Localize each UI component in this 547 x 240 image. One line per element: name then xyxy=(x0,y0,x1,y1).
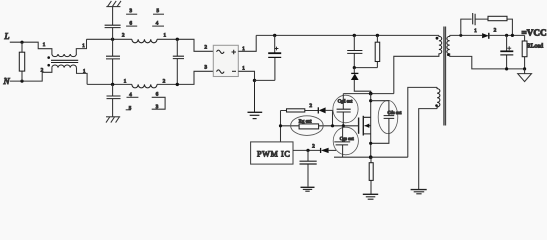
node junction Cgd gate xyxy=(342,124,345,127)
earth ground pwm cap xyxy=(301,187,315,191)
svg-text:6: 6 xyxy=(130,20,133,26)
bulk cap plus sign xyxy=(275,47,279,51)
node N label xyxy=(3,76,11,86)
capacitor C output electrolytic xyxy=(500,35,513,69)
bridge rectifier BR1 box xyxy=(213,45,238,76)
wire source to aux winding xyxy=(408,87,437,157)
bridge plus sign xyxy=(232,50,237,54)
transformer T1 aux phase dot xyxy=(435,104,438,107)
common-mode choke L1 core xyxy=(51,60,78,62)
node junction gate mid xyxy=(279,124,282,127)
svg-text:RLoad: RLoad xyxy=(527,43,543,50)
svg-text:L: L xyxy=(4,31,10,41)
node junction Cds top xyxy=(369,99,372,102)
wire source rail xyxy=(334,156,408,158)
wire top rail left xyxy=(87,38,132,40)
svg-text:Rg ext: Rg ext xyxy=(299,119,312,125)
wire PWM right output xyxy=(293,149,321,151)
wire secondary return rail xyxy=(450,54,525,69)
wire drain vertical xyxy=(370,94,372,158)
node junction out cap bottom xyxy=(505,67,508,70)
bridge ac symbol top xyxy=(217,50,225,53)
transformer T1 secondary winding xyxy=(447,35,450,54)
pin label 5 stub xyxy=(153,8,164,14)
node junction source xyxy=(369,155,373,159)
pin 2 output diode label xyxy=(494,27,497,33)
resistor RLoad xyxy=(522,35,527,69)
svg-text:2: 2 xyxy=(312,143,315,149)
wire L input xyxy=(10,42,52,54)
wire transformer primary bottom to drain xyxy=(394,54,439,94)
svg-text:2: 2 xyxy=(205,45,208,51)
svg-text:5: 5 xyxy=(157,8,160,14)
node junction VCC out cap xyxy=(505,34,508,37)
bridge minus sign xyxy=(232,70,236,72)
earth ground aux xyxy=(411,190,427,194)
svg-text:2: 2 xyxy=(494,27,497,33)
pin 1 inductor L2 right xyxy=(164,32,167,38)
ground output triangle xyxy=(518,69,532,82)
pin label 4 stub bottom xyxy=(127,92,139,98)
svg-text:1: 1 xyxy=(164,32,167,38)
pin 2 inductor L2 left xyxy=(122,33,125,39)
label Rg ext xyxy=(299,119,312,125)
common-mode choke L1 top winding xyxy=(52,54,76,57)
capacitor Cds ext circled xyxy=(371,100,398,143)
wire gate rail xyxy=(281,125,359,127)
diode D gate top xyxy=(318,107,332,126)
capacitor CX1 xyxy=(106,39,120,84)
node junction primary ground xyxy=(253,79,256,82)
resistor R out snubber xyxy=(475,16,512,35)
pin label 6 stub xyxy=(126,20,137,26)
pin label 3 stub xyxy=(126,8,137,14)
svg-text:1: 1 xyxy=(124,79,127,85)
svg-text:N: N xyxy=(3,76,11,86)
pin 2 choke left bottom xyxy=(41,68,44,74)
wire aux winding to ground xyxy=(419,109,437,190)
pin 2 inductor L3 right xyxy=(163,79,166,85)
PWM IC U1 label xyxy=(257,149,290,158)
common-mode choke L1 bottom winding xyxy=(52,65,76,68)
label RLoad xyxy=(527,43,543,50)
earth ground sense xyxy=(363,194,378,199)
bridge pin 2 label xyxy=(205,45,208,51)
svg-text:Cgs ext: Cgs ext xyxy=(340,136,355,141)
chassis ground top (Y-cap) xyxy=(106,1,121,7)
bridge pin 1 bottom label xyxy=(242,66,245,72)
node junction bottom rail Xcap2 xyxy=(176,83,179,86)
transformer T1 primary phase dot xyxy=(436,37,439,40)
svg-text:4: 4 xyxy=(156,20,159,26)
capacitor CY2 bottom xyxy=(107,84,121,116)
earth ground primary xyxy=(248,80,263,118)
wire bridge minus to ground node xyxy=(238,71,254,80)
wire top rail right to bridge xyxy=(157,39,213,51)
transistor Q1 MOSFET xyxy=(359,116,371,136)
node junction top rail Xcap2 xyxy=(176,38,179,41)
capacitor Cgd ext circled xyxy=(333,94,358,126)
node junction bulk cap xyxy=(273,34,276,37)
chassis ground bottom (Y-cap) xyxy=(106,117,120,123)
node junction top rail Ycap xyxy=(111,38,114,41)
label VCC xyxy=(522,28,547,38)
svg-text:6: 6 xyxy=(156,91,159,97)
svg-text:3: 3 xyxy=(130,8,133,14)
svg-text:Cgd ext: Cgd ext xyxy=(338,99,353,104)
resistor R1 input xyxy=(19,42,24,81)
node junction clamp RCD xyxy=(353,66,356,69)
pin label 4 stub xyxy=(152,20,164,26)
node junction drain xyxy=(369,92,373,96)
capacitor CY1 top xyxy=(105,7,121,40)
pin 1 choke left top xyxy=(43,42,46,48)
svg-text:2: 2 xyxy=(122,33,125,39)
pin 2 label gate diode bottom xyxy=(312,143,315,149)
pin label 6 stub bottom xyxy=(156,91,159,97)
capacitor C clamp xyxy=(347,35,362,67)
pin 1 inductor L3 left xyxy=(124,79,127,85)
transformer T1 secondary phase dot xyxy=(447,54,450,57)
svg-text:2: 2 xyxy=(163,79,166,85)
node junction clamp cap xyxy=(353,34,356,37)
wire N input xyxy=(10,68,52,82)
PWM IC U1 box xyxy=(251,142,293,164)
svg-text:=VCC: =VCC xyxy=(522,28,547,38)
capacitor C pwm xyxy=(300,150,317,186)
wire bottom rail left xyxy=(87,83,132,85)
wire DC bus rail xyxy=(256,34,439,36)
label Cds ext xyxy=(388,110,403,115)
resistor R sense xyxy=(369,157,373,194)
svg-text:Cds ext: Cds ext xyxy=(388,110,403,115)
diode D clamp xyxy=(351,68,371,94)
node junction L-R1 xyxy=(20,41,23,44)
common-mode choke L1 phase dot top xyxy=(47,56,50,59)
node junction VCC snubber xyxy=(511,34,514,37)
diode D gate bottom xyxy=(321,148,336,153)
transformer T1 aux winding xyxy=(437,87,440,108)
resistor R clamp xyxy=(354,35,379,67)
node junction snubber left xyxy=(459,34,462,37)
capacitor CX2 xyxy=(173,39,184,84)
resistor R gate on xyxy=(281,109,319,112)
pin label 3 bracket bottom xyxy=(152,97,165,110)
wire choke top right to rail xyxy=(76,39,86,54)
pin 2 label gate diode top xyxy=(310,103,313,109)
svg-text:1: 1 xyxy=(43,42,46,48)
svg-text:2: 2 xyxy=(310,103,313,109)
pin 1 output diode label xyxy=(474,28,477,34)
svg-text:5: 5 xyxy=(129,106,132,112)
wire secondary top to diode xyxy=(450,34,482,36)
inductor L3 bottom xyxy=(132,84,157,88)
svg-text:1: 1 xyxy=(242,66,245,72)
bridge pin 1 top label xyxy=(242,46,245,52)
pin 1 choke right bottom xyxy=(83,69,86,75)
capacitor C out snubber xyxy=(461,13,475,35)
common-mode choke L1 phase dot bottom xyxy=(47,64,50,67)
node L label xyxy=(4,31,10,41)
label Cgd ext xyxy=(338,99,353,104)
label Cgs ext xyxy=(340,136,355,141)
node junction PWM cap xyxy=(306,149,309,152)
svg-text:3: 3 xyxy=(205,65,208,71)
transformer T1 primary winding xyxy=(439,35,442,54)
svg-text:PWM IC: PWM IC xyxy=(257,149,290,158)
bridge pin 3 label xyxy=(205,65,208,71)
node junction N-R1 xyxy=(20,80,23,83)
pin 1 choke right top xyxy=(82,43,85,49)
diode D output xyxy=(482,33,524,39)
inductor L2 top xyxy=(132,39,157,43)
node junction clamp res xyxy=(376,34,379,37)
capacitor C bulk electrolytic xyxy=(255,35,282,80)
node junction Cds bottom xyxy=(369,142,372,145)
svg-text:1: 1 xyxy=(474,28,477,34)
output cap plus sign xyxy=(507,46,511,50)
bridge ac symbol bottom xyxy=(217,70,225,73)
node junction bottom rail Ycap xyxy=(111,83,114,86)
wire bottom rail right to bridge xyxy=(157,71,213,84)
node junction RLoad bottom xyxy=(523,67,526,70)
wire drain rail xyxy=(343,93,394,95)
capacitor Cgs ext circled xyxy=(333,126,358,157)
transformer T1 core xyxy=(444,27,446,126)
resistor Rg ext circled xyxy=(291,116,324,136)
node junction gate right xyxy=(331,124,334,127)
wire bridge plus to DC rail xyxy=(238,35,256,51)
pin label 5 dash bottom xyxy=(126,106,132,112)
wire PWM output vertical xyxy=(280,111,282,142)
wire choke bottom right to rail xyxy=(77,68,88,85)
